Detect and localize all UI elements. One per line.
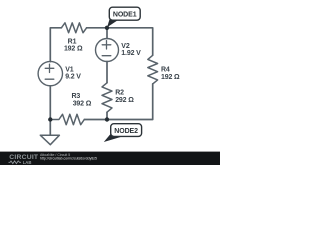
node NODE1 callout — [107, 7, 140, 27]
wire bottom middle segment — [84, 119, 107, 121]
watermark logo zigzag — [9, 161, 22, 164]
svg-text:LAB: LAB — [23, 160, 32, 165]
svg-text:R2: R2 — [115, 89, 124, 96]
svg-text:R1: R1 — [68, 38, 77, 45]
V1 plus sign — [45, 64, 54, 72]
svg-text:V1: V1 — [65, 67, 74, 74]
wire V1 to bottom junction — [49, 86, 51, 120]
node NODE2 callout — [104, 124, 142, 142]
V2 minus sign — [102, 55, 111, 57]
svg-text:9.2 V: 9.2 V — [65, 74, 81, 81]
junction dot bottom-middle (node 2 anchor) — [105, 117, 109, 121]
junction dot bottom-left — [48, 117, 52, 121]
svg-text:NODE1: NODE1 — [113, 12, 137, 19]
wire V2 to R2 — [106, 62, 108, 83]
resistor R4 zigzag — [148, 55, 158, 84]
svg-text:NODE2: NODE2 — [114, 128, 138, 135]
wire top-right segment — [87, 28, 153, 56]
svg-text:392 Ω: 392 Ω — [73, 101, 92, 108]
component labels — [64, 38, 180, 107]
wire top-left segment — [50, 28, 61, 62]
resistor R3 zigzag — [50, 114, 84, 124]
wire R2 to bottom junction — [106, 112, 108, 119]
watermark bar — [0, 152, 220, 165]
V2 plus sign — [102, 41, 111, 49]
voltage source V1 circle — [38, 61, 62, 85]
wire right rail lower — [107, 84, 153, 120]
ground symbol — [40, 120, 59, 145]
junction dot top (node 1 anchor) — [105, 26, 109, 30]
wire middle rail from junction to V2 — [106, 28, 108, 39]
resistor R2 zigzag — [102, 83, 112, 112]
svg-text:V2: V2 — [121, 43, 130, 50]
svg-text:R4: R4 — [161, 67, 170, 74]
svg-text:192 Ω: 192 Ω — [161, 74, 180, 81]
svg-text:292 Ω: 292 Ω — [115, 97, 134, 104]
svg-text:1.92 V: 1.92 V — [121, 50, 141, 57]
voltage source V2 circle — [96, 39, 119, 62]
V1 minus sign — [45, 78, 54, 80]
svg-text:R3: R3 — [72, 93, 81, 100]
svg-text:http://circuitlab.com/c/cuts6s: http://circuitlab.com/c/cuts6sv3dy8z5 — [40, 156, 97, 160]
resistor R1 zigzag — [61, 23, 86, 33]
svg-text:192 Ω: 192 Ω — [64, 45, 83, 52]
